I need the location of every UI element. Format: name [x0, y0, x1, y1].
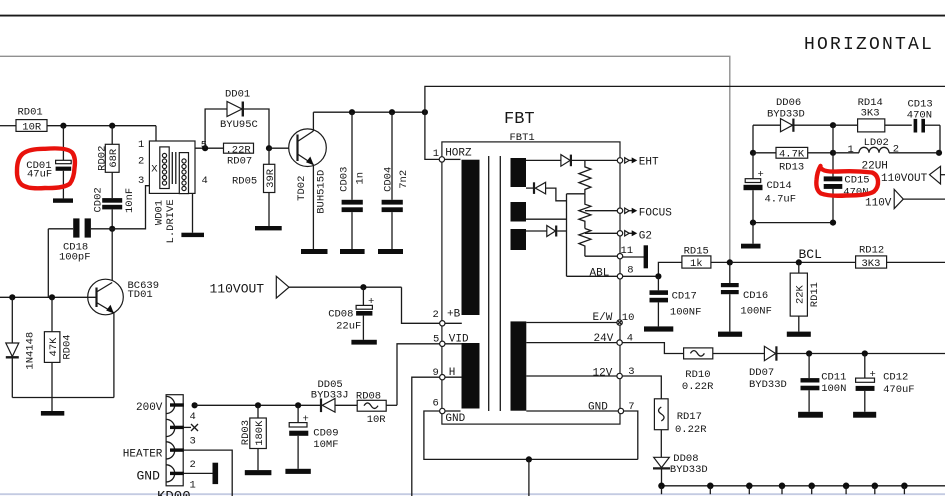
ground CD12	[853, 412, 876, 418]
resistor RD03 180K	[240, 405, 267, 470]
wire 12V to RD17	[622, 376, 661, 399]
capacitor CD01 47uF	[26, 126, 71, 199]
FBT primary winding bar lower	[462, 343, 480, 409]
svg-text:2: 2	[138, 156, 144, 168]
pin 5 VID	[433, 333, 469, 346]
node BCL junction	[796, 259, 802, 265]
connector 110V arrow	[865, 189, 945, 209]
pin FOCUS	[617, 208, 672, 220]
node junction pin5/DD01	[202, 145, 208, 151]
svg-text:22K: 22K	[795, 284, 807, 304]
wire GND to chassis	[184, 472, 213, 474]
capacitor CD17 100NF	[650, 276, 702, 326]
svg-text:RD17: RD17	[677, 411, 702, 423]
wire 110VOUT to pin2	[289, 286, 402, 288]
svg-text:DD06: DD06	[776, 97, 801, 109]
node junction 200V	[192, 402, 198, 408]
node junction CD03	[349, 109, 355, 115]
svg-text:FBT: FBT	[504, 110, 535, 129]
pin 1 HORZ	[433, 147, 472, 162]
svg-text:470uF: 470uF	[883, 384, 915, 396]
resistor RD11 22K	[790, 262, 821, 331]
node junction rail/FBT	[422, 109, 428, 115]
wire ABL to pin 8	[567, 275, 618, 277]
capacitor CD11 100N	[801, 354, 847, 412]
sheet top border line	[0, 15, 945, 17]
wire BCL rail	[730, 261, 856, 263]
ground CD04	[378, 249, 403, 254]
node junction DD06/RD14/CD15	[830, 122, 836, 128]
pin G2	[617, 230, 652, 242]
wire RD08 to VID riser	[386, 404, 397, 406]
resistor RD04 47K	[44, 297, 73, 411]
svg-text:100N: 100N	[821, 383, 846, 395]
ground CD01	[53, 198, 73, 202]
ground CD14	[741, 244, 761, 249]
svg-text:CD03: CD03	[338, 167, 350, 192]
pin 8 ABL	[617, 264, 633, 279]
svg-text:1: 1	[138, 139, 144, 151]
svg-text:10R: 10R	[367, 414, 387, 426]
svg-text:10MF: 10MF	[313, 439, 338, 451]
svg-text:12V: 12V	[593, 367, 613, 379]
connector 110VOUT left arrow	[210, 276, 290, 298]
svg-text:10: 10	[622, 312, 635, 324]
svg-text:1: 1	[190, 479, 196, 491]
wire RD10 to DD07	[713, 353, 765, 355]
svg-text:1: 1	[433, 148, 439, 160]
resistor RD17 0.22R fusible	[654, 399, 707, 458]
svg-text:2: 2	[190, 459, 196, 471]
pin EHT	[617, 157, 659, 169]
node junction 1N4148	[9, 294, 15, 300]
connector pin 3 HEATER	[123, 448, 196, 470]
ground CD17	[644, 326, 673, 331]
ground TD02	[301, 249, 328, 254]
wire RD01 to WD01 pin1	[47, 125, 156, 127]
svg-text:RD03: RD03	[240, 420, 252, 445]
svg-text:G2: G2	[639, 230, 652, 242]
svg-text:3: 3	[138, 175, 144, 187]
node junction gray/CD16	[727, 259, 733, 265]
svg-text:CD08: CD08	[328, 308, 353, 320]
ground RD11	[787, 332, 811, 337]
svg-text:24V: 24V	[594, 333, 614, 345]
svg-text:180K: 180K	[254, 420, 266, 446]
svg-text:110VOUT: 110VOUT	[210, 281, 265, 296]
node junction bus 2	[707, 483, 714, 495]
svg-text:68R: 68R	[108, 148, 120, 168]
pin 2 +B	[433, 309, 462, 326]
svg-text:100NF: 100NF	[670, 306, 702, 318]
svg-text:10nF: 10nF	[124, 188, 136, 213]
svg-text:HEATER: HEATER	[123, 449, 163, 461]
wire input to RD01	[0, 125, 16, 127]
svg-text:6: 6	[433, 398, 439, 410]
resistor RD15 1k	[682, 246, 711, 271]
wire pin11 to electrode	[623, 256, 644, 258]
capacitor CD13 470N	[885, 99, 940, 133]
diode EHT top	[526, 155, 617, 167]
transformer WD01 L.DRIVE	[138, 139, 208, 243]
resistor RD02 68R	[97, 126, 121, 198]
connector KD00 body	[157, 395, 191, 496]
svg-text:RD07: RD07	[227, 155, 252, 167]
resistor RD08 10R fusible	[356, 391, 386, 426]
wire top rail to right edge	[425, 86, 945, 159]
svg-text:470N: 470N	[907, 109, 932, 121]
wire CD13 to LD02 out	[939, 125, 941, 153]
wire RD12 to edge	[887, 261, 945, 263]
node junction bus 7	[872, 483, 879, 495]
wire TD02 emitter to ground	[312, 165, 314, 250]
ground CD11	[798, 412, 823, 418]
node junction CD08	[360, 284, 366, 290]
connector pin X nc	[170, 424, 198, 447]
capacitor CD18 100pF	[48, 218, 112, 263]
capacitor CD16 100NF	[721, 262, 772, 331]
wire HEATER to bottom edge	[184, 450, 232, 496]
diode DD06 BYD33D	[753, 97, 833, 132]
wire to ground CD14	[752, 223, 754, 244]
svg-text:BYD33D: BYD33D	[767, 109, 805, 121]
svg-text:4: 4	[202, 175, 208, 187]
svg-text:4.7uF: 4.7uF	[765, 194, 797, 206]
transistor TD02 BUH515D	[289, 129, 328, 214]
pin 7 GND	[526, 401, 634, 414]
wire collector rail	[313, 111, 425, 113]
capacitor CD08 22uF	[328, 287, 374, 340]
svg-text:BCL: BCL	[799, 247, 822, 262]
FBT secondary winding lower	[511, 321, 527, 410]
svg-text:7n2: 7n2	[398, 170, 410, 189]
wire FOCUS tap	[585, 210, 617, 212]
capacitor CD14 4.7uF	[744, 153, 797, 223]
svg-text:RD15: RD15	[684, 246, 709, 258]
svg-text:4: 4	[190, 411, 196, 423]
svg-text:KD00: KD00	[157, 489, 191, 496]
svg-text:FOCUS: FOCUS	[639, 208, 672, 220]
svg-text:11: 11	[621, 245, 634, 257]
wire WD01 pin5 to RD07	[195, 147, 224, 149]
node junction CD01	[60, 123, 66, 129]
node junction CD17	[655, 273, 661, 279]
node junction CD09	[295, 402, 301, 408]
resistor RD05 39R	[232, 148, 277, 226]
svg-text:0.22R: 0.22R	[675, 424, 707, 436]
wire ground rail bottom	[662, 485, 945, 487]
FBT primary winding bar upper	[462, 160, 480, 315]
svg-text:WD01: WD01	[153, 200, 165, 225]
FBT secondary winding seg3	[511, 229, 527, 250]
resistor bleeder zigzag2	[579, 194, 591, 229]
FBT core lines	[489, 156, 501, 411]
svg-text:4.7K: 4.7K	[779, 149, 805, 161]
svg-text:BYD33D: BYD33D	[749, 379, 787, 391]
resistor RD13 4.7K	[753, 147, 833, 173]
ground RD04	[41, 411, 64, 416]
node junction bus 3	[746, 483, 753, 495]
svg-text:100pF: 100pF	[59, 252, 91, 264]
pin 10 E/W	[526, 312, 634, 325]
ground CD03	[340, 249, 365, 254]
svg-text:2: 2	[893, 143, 899, 155]
wire TD01 emitter	[113, 313, 115, 398]
wire gnd drop to edge	[528, 459, 530, 496]
diode DD08 BYD33D	[653, 453, 708, 486]
connector 110VOUT right arrow	[881, 166, 945, 185]
FBT secondary winding seg1	[511, 158, 527, 187]
node junction RD13 left	[750, 150, 756, 156]
node junction CD04	[389, 109, 395, 115]
svg-text:1N4148: 1N4148	[24, 332, 36, 370]
wire TD02 collector to rail	[312, 112, 314, 131]
svg-text:GND: GND	[588, 402, 608, 414]
diode FBT mid	[526, 182, 567, 201]
svg-text:8: 8	[627, 264, 633, 276]
svg-text:CD16: CD16	[743, 290, 768, 302]
pin 9 H	[433, 367, 462, 380]
svg-text:1k: 1k	[690, 258, 703, 270]
node junction CD15 top	[830, 150, 836, 156]
diode FBT lower	[526, 226, 567, 237]
svg-text:FBT1: FBT1	[510, 132, 535, 144]
wire 200V rail	[195, 404, 322, 406]
svg-text:ABL: ABL	[590, 267, 610, 279]
resistor bleeder zigzag3	[579, 229, 591, 257]
svg-text:39R: 39R	[265, 168, 277, 188]
svg-text:2: 2	[433, 309, 439, 321]
wire pin2 to 110VOUT node	[402, 287, 440, 323]
svg-text:CD09: CD09	[313, 428, 338, 440]
svg-text:CD02: CD02	[93, 187, 105, 212]
pin 3 12V	[526, 366, 634, 379]
wire bottom rail TD01	[12, 397, 114, 399]
svg-text:CD11: CD11	[821, 372, 846, 384]
diode 1N4148	[6, 297, 36, 397]
svg-text:HORIZONTAL: HORIZONTAL	[804, 35, 934, 55]
capacitor CD02 10nF	[93, 187, 137, 229]
svg-text:0.22R: 0.22R	[682, 381, 714, 393]
svg-text:CD14: CD14	[767, 180, 792, 192]
svg-text:HORZ: HORZ	[445, 147, 472, 159]
node junction bus 8	[901, 483, 908, 495]
node junction gnd drop	[526, 456, 532, 462]
node junction bus 5	[808, 483, 815, 495]
svg-text:RD02: RD02	[97, 146, 109, 171]
svg-text:RD10: RD10	[685, 369, 710, 381]
svg-text:3K3: 3K3	[861, 108, 880, 120]
svg-text:RD11: RD11	[809, 282, 821, 307]
capacitor CD03 1n	[338, 112, 366, 249]
node junction bus 6	[843, 483, 850, 495]
node junction bus 4	[779, 483, 786, 495]
wire junction to WD01 pin3	[112, 186, 149, 229]
node junction RD04	[49, 294, 55, 300]
wire chain tee	[567, 193, 585, 195]
svg-text:EHT: EHT	[639, 157, 659, 169]
svg-text:GND: GND	[445, 413, 465, 425]
svg-text:LD02: LD02	[864, 137, 889, 149]
svg-text:3K3: 3K3	[862, 258, 881, 270]
resistor RD01	[16, 107, 47, 134]
capacitor CD04 7n2	[382, 112, 411, 249]
node junction bus 1	[658, 483, 665, 495]
svg-text:+B: +B	[447, 309, 461, 321]
pin 11	[617, 245, 633, 259]
svg-text:BUH515D: BUH515D	[315, 170, 327, 214]
ground CD09	[285, 469, 310, 474]
wire pin7 gnd loop right	[624, 411, 638, 459]
resistor bleeder zigzag1	[579, 160, 591, 193]
wire CD14/CD15 bottom rail	[753, 222, 833, 224]
capacitor CD12 470uF	[856, 354, 915, 412]
wire pin9 H to bottom edge	[412, 377, 440, 496]
ground WD01	[181, 233, 204, 237]
svg-text:1: 1	[848, 144, 854, 156]
pin 4 24V	[526, 333, 633, 346]
svg-text:RD05: RD05	[232, 175, 257, 187]
diode DD05 BYD33J	[311, 379, 357, 412]
svg-text:E/W: E/W	[593, 312, 613, 324]
wire CD18 to TD01 base	[47, 229, 49, 297]
svg-text:100NF: 100NF	[740, 305, 772, 317]
svg-text:BYU95C: BYU95C	[220, 119, 258, 131]
capacitor CD09 10MF	[289, 405, 338, 469]
svg-text:47K: 47K	[48, 337, 60, 357]
svg-text:1n: 1n	[354, 172, 366, 185]
annotation red circle CD15	[816, 166, 878, 196]
wire DD06 anode drop	[752, 125, 754, 153]
svg-text:BYD33D: BYD33D	[670, 464, 708, 476]
wire WD01 pin4 to ground	[192, 193, 194, 232]
annotation red circle CD01	[17, 148, 75, 188]
ABL electrode bar	[644, 245, 648, 268]
wire chain to pin 11	[585, 255, 617, 257]
FBT secondary winding seg2	[511, 202, 527, 222]
transistor TD01 BC639	[0, 279, 159, 315]
ground CD16	[718, 332, 742, 337]
wire pin6 gnd loop left	[424, 411, 638, 459]
svg-text:22uF: 22uF	[336, 320, 361, 332]
transformer FBT1 box	[442, 110, 620, 424]
svg-text:DD07: DD07	[749, 367, 774, 379]
svg-text:110V: 110V	[865, 197, 892, 209]
node junction CD18/CD02/TD01	[109, 226, 115, 232]
svg-text:RD08: RD08	[356, 391, 381, 403]
svg-text:TD02: TD02	[296, 176, 308, 201]
capacitor CD15 470N	[824, 125, 870, 222]
ground RD03	[245, 470, 272, 475]
wire seg2 bottom tap	[526, 218, 567, 220]
wire RD15 to gray junction	[711, 261, 730, 263]
svg-text:DD01: DD01	[225, 89, 250, 101]
wire gray net from left edge to RD15 junction	[0, 56, 730, 262]
svg-text:CD12: CD12	[883, 372, 908, 384]
chassis ground bar	[213, 463, 219, 484]
svg-text:110VOUT: 110VOUT	[881, 173, 928, 185]
node junction CD14 bottom	[750, 220, 756, 226]
node junction RD07/DD01/RD05	[266, 145, 272, 151]
sheet bottom border line	[0, 493, 945, 495]
pin 6 GND	[433, 398, 466, 425]
node junction CD15 bottom	[830, 220, 836, 226]
svg-text:200V: 200V	[136, 402, 163, 414]
wire pin5 to RD08	[397, 344, 439, 406]
wire pin8 to RD15	[623, 262, 682, 276]
node junction CD11	[806, 350, 812, 356]
wire ABL riser	[566, 194, 568, 276]
wire WD01 pin1 drop	[155, 126, 157, 141]
svg-text:BYD33J: BYD33J	[311, 389, 349, 401]
resistor RD12 3K3	[856, 245, 887, 271]
svg-text:3: 3	[190, 435, 196, 447]
svg-text:RD12: RD12	[859, 245, 884, 257]
svg-text:X: X	[151, 164, 158, 176]
ground CD08	[351, 340, 376, 345]
svg-text:L.DRIVE: L.DRIVE	[165, 199, 177, 243]
svg-text:CD04: CD04	[382, 167, 394, 192]
svg-text:GND: GND	[137, 468, 161, 483]
node junction RD03	[255, 402, 261, 408]
svg-text:RD01: RD01	[18, 107, 43, 119]
connector pin 2 GND	[137, 468, 196, 491]
node junction LD02 out	[936, 150, 942, 156]
svg-text:CD17: CD17	[672, 291, 697, 303]
ground RD05	[255, 226, 282, 230]
connector pin 4 200V	[136, 402, 196, 423]
svg-text:RD13: RD13	[779, 161, 804, 173]
wire TD01 collector	[111, 229, 113, 280]
resistor RD07 .22R	[224, 143, 254, 167]
svg-text:CD15: CD15	[844, 175, 869, 187]
node junction RD02	[109, 123, 115, 129]
wire 24V to RD10	[622, 343, 683, 354]
inductor LD02 22UH	[833, 137, 940, 173]
wire junction to TD02 base	[269, 147, 298, 149]
svg-text:RD04: RD04	[62, 334, 74, 359]
diode DD01 BYU95C	[205, 89, 269, 149]
svg-text:47uF: 47uF	[27, 168, 52, 180]
resistor RD10 0.22R fusible	[682, 348, 714, 393]
resistor RD14 3K3	[833, 97, 885, 132]
svg-text:TD01: TD01	[128, 289, 153, 301]
svg-text:10R: 10R	[22, 122, 42, 134]
node junction CD12	[862, 350, 868, 356]
wire G2 tap	[585, 232, 617, 234]
diode DD07 BYD33D	[749, 346, 945, 391]
